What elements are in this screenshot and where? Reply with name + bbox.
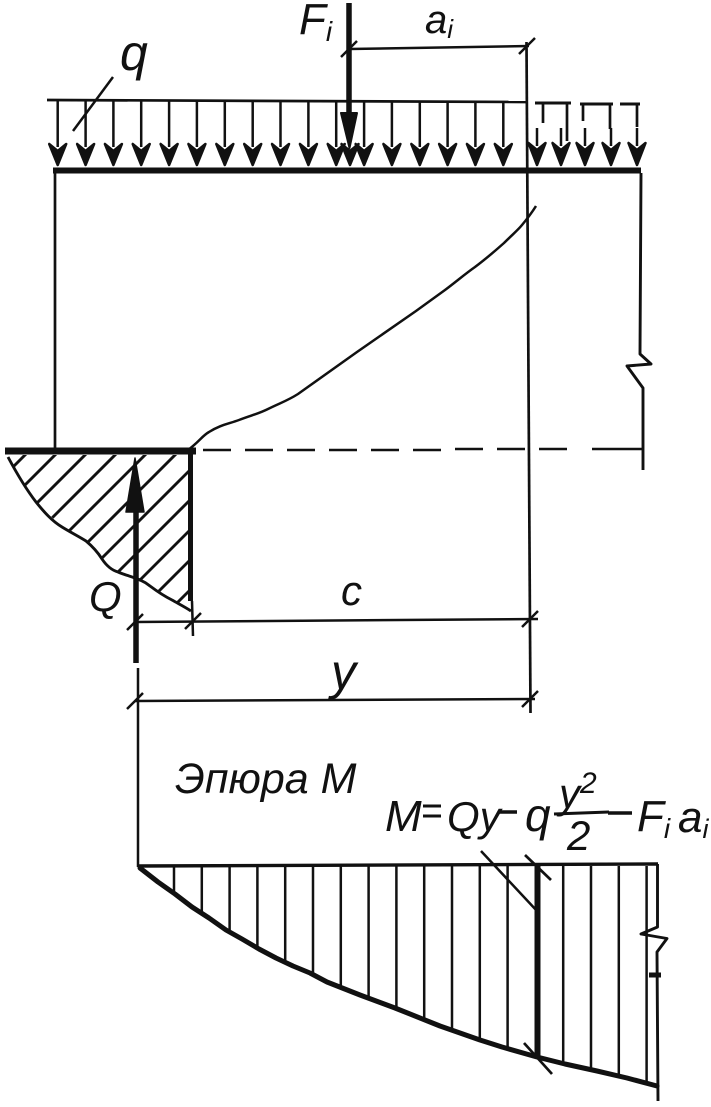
dimension line y bbox=[127, 691, 538, 709]
support freehand break boundary bbox=[8, 457, 191, 611]
extension line below Q bbox=[137, 668, 140, 867]
svg-text:ЭпюраМ: ЭпюраМ bbox=[175, 755, 357, 803]
moment diagram top line bbox=[138, 864, 658, 866]
support right thick edge bbox=[188, 451, 193, 601]
load arrowhead under force Fi bbox=[342, 144, 359, 165]
svg-text:M: M bbox=[385, 792, 422, 841]
svg-text:y: y bbox=[328, 644, 359, 700]
tick at ordinate bottom bbox=[524, 1043, 552, 1074]
force Fi arrow bbox=[341, 3, 357, 148]
moment right edge with break bbox=[641, 864, 667, 1101]
moment diagram hatching bbox=[174, 866, 647, 1082]
support top thick line bbox=[5, 448, 196, 455]
leader line from formula to ordinate bbox=[481, 851, 537, 911]
svg-text:c: c bbox=[341, 567, 362, 614]
load top line (solid part) bbox=[47, 100, 527, 102]
svg-text:2: 2 bbox=[566, 812, 590, 859]
svg-text:q: q bbox=[120, 25, 148, 81]
leader line for q bbox=[73, 77, 113, 131]
right edge line with break bbox=[627, 173, 651, 470]
moment ordinate thick line bbox=[535, 866, 541, 1058]
svg-text:q: q bbox=[525, 789, 551, 841]
shear curve bbox=[188, 206, 536, 450]
distributed load q arrows (dashed right region) bbox=[529, 104, 646, 165]
dashed axis line bbox=[203, 449, 642, 450]
moment curve bbox=[140, 868, 657, 1086]
vertical reference line at section bbox=[527, 42, 531, 713]
beam top line bbox=[53, 168, 641, 174]
distributed load q arrows (solid region) bbox=[49, 101, 512, 165]
left edge line bbox=[54, 173, 57, 450]
formula M = Qy - q y2/2 - Fi ai bbox=[385, 767, 709, 859]
tick at ordinate top bbox=[525, 855, 551, 880]
support edge thin extension bbox=[192, 601, 193, 636]
dimension line c bbox=[127, 611, 538, 630]
reaction Q arrow bbox=[126, 458, 144, 663]
dimension line a_i bbox=[341, 38, 535, 57]
svg-text:Qy: Qy bbox=[447, 793, 504, 840]
svg-text:Q: Q bbox=[89, 573, 122, 620]
dash mark on right edge bbox=[649, 973, 661, 978]
load top line dashes (right part) bbox=[535, 103, 640, 104]
